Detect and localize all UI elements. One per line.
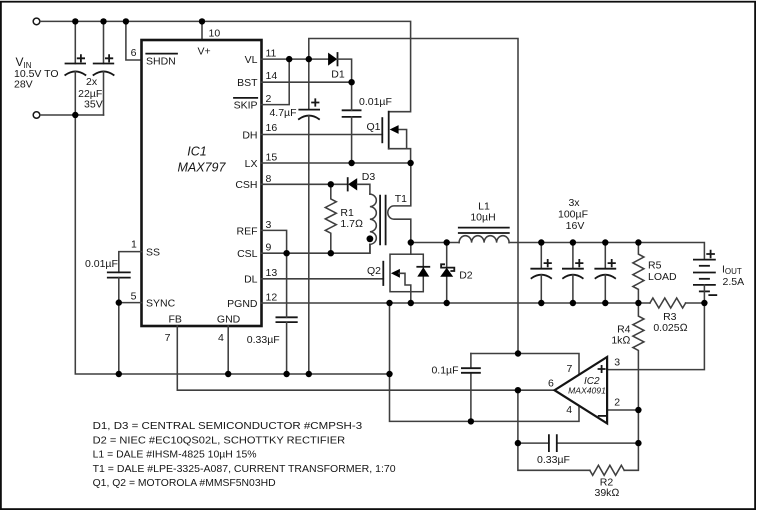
svg-text:10µH: 10µH: [470, 212, 495, 224]
junction dot (389.5,374): [386, 371, 392, 377]
transformer T1 core: [380, 196, 386, 245]
wire LX node to L1 and output rail: [411, 242, 459, 244]
svg-text:28V: 28V: [14, 79, 33, 91]
svg-text:LOAD: LOAD: [648, 271, 677, 283]
svg-text:VL: VL: [245, 54, 258, 66]
junction dot (605.3,242.5): [602, 239, 608, 245]
svg-text:0.1µF: 0.1µF: [431, 365, 458, 377]
wire SKIP pin 2: [262, 59, 290, 105]
wire pin2 node down to R2: [624, 410, 638, 470]
wire DH pin 16 to Q1 gate: [262, 134, 383, 136]
junction dot (638.4,303): [635, 300, 641, 306]
junction dot (638.4,443.1): [635, 440, 641, 446]
svg-text:D1, D3 = CENTRAL SEMICONDUCTOR: D1, D3 = CENTRAL SEMICONDUCTOR #CMPSH-3: [93, 420, 363, 432]
junction dot (572.9,242.5): [570, 239, 576, 245]
svg-text:0.01µF: 0.01µF: [359, 96, 392, 108]
capacitor 0.01uF bootstrap: [343, 110, 361, 117]
junction dots rectified output node: [408, 239, 414, 245]
diode D1: [328, 53, 337, 66]
capacitor 0.33uF REF: [276, 317, 296, 322]
svg-text:3: 3: [614, 357, 620, 369]
capacitor C-in1 22uF: [74, 21, 76, 63]
wire FB pin 7 to IC2 output: [177, 326, 554, 390]
junction dot (605.3,303): [602, 300, 608, 306]
junction dot (330.8,253.2): [328, 250, 334, 256]
svg-text:1: 1: [131, 239, 137, 251]
junction dot (202,21.4): [199, 18, 205, 24]
diode D2 schottky: [446, 243, 448, 304]
svg-text:8: 8: [266, 173, 272, 185]
svg-text:DL: DL: [244, 274, 258, 286]
capacitor Cout3 100uF: [604, 243, 606, 269]
svg-text:GND: GND: [217, 314, 241, 326]
junction dot (410.6,163): [407, 160, 413, 166]
junction dot BST: [348, 79, 354, 85]
svg-text:CSH: CSH: [235, 179, 257, 191]
svg-text:3x: 3x: [568, 197, 580, 209]
svg-text:T1: T1: [395, 193, 407, 205]
junction dot (308.8,374): [306, 371, 312, 377]
junction dot (446.7,242.5): [444, 239, 450, 245]
svg-text:0.025Ω: 0.025Ω: [653, 322, 687, 334]
transistor Q2 body diode: [417, 267, 429, 276]
junction dots LX: [348, 160, 354, 166]
svg-text:Q1: Q1: [366, 121, 380, 133]
svg-text:L1 = DALE #IHSM-4825 10µH 15%: L1 = DALE #IHSM-4825 10µH 15%: [93, 449, 257, 461]
junction dots VL node: [286, 56, 292, 62]
svg-text:D1: D1: [331, 69, 345, 81]
svg-text:1kΩ: 1kΩ: [611, 335, 630, 347]
junction dot pin2 node: [635, 407, 641, 413]
svg-text:10: 10: [209, 28, 221, 40]
svg-text:1.7Ω: 1.7Ω: [340, 218, 363, 230]
svg-text:4: 4: [218, 332, 224, 344]
svg-text:9: 9: [266, 242, 272, 254]
svg-text:DH: DH: [242, 130, 257, 142]
battery IOUT: [694, 259, 715, 261]
junction dot VIN-: [72, 112, 78, 118]
wire CSL pin 9: [262, 244, 371, 253]
junction dot (125.9,21.4): [123, 18, 129, 24]
svg-text:39kΩ: 39kΩ: [595, 487, 620, 499]
wire VIN- bottom: [40, 114, 103, 116]
junction dot (446.7,303): [444, 300, 450, 306]
capacitor C-in2 22uF: [103, 21, 105, 63]
svg-text:MAX4091: MAX4091: [568, 386, 606, 396]
wire VL up and over to IC2 supply: [309, 39, 518, 354]
wire VL pin 11: [262, 58, 329, 60]
transformer T1 secondary: [388, 163, 411, 243]
svg-text:D2 = NIEC #EC10QS02L, SCHOTTKY: D2 = NIEC #EC10QS02L, SCHOTTKY RECTIFIER: [93, 434, 346, 446]
junction dot (103.5,21.4): [100, 18, 106, 24]
svg-text:2: 2: [266, 93, 272, 105]
svg-text:13: 13: [266, 267, 278, 279]
svg-text:6: 6: [548, 377, 554, 389]
resistor R5 LOAD: [633, 243, 644, 304]
wire top V+ rail to Q1 drain: [40, 21, 410, 111]
junction dot (308.8,59.1): [306, 56, 312, 62]
resistor R1 1.7ohm: [325, 184, 336, 253]
wire ground tie PGND to analog gnd: [390, 303, 580, 421]
svg-text:CSL: CSL: [237, 248, 258, 260]
capacitor 0.1uF IC2 bypass: [470, 354, 472, 422]
junction dot (638.4,242.5): [635, 239, 641, 245]
svg-text:FB: FB: [168, 314, 181, 326]
op-amp IC2 MAX4091: [555, 357, 608, 423]
capacitor 0.33uF feedback: [518, 442, 639, 444]
wire SYNC pin 5: [119, 302, 142, 304]
resistor R3 0.025ohm: [650, 298, 686, 308]
svg-text:R5: R5: [648, 259, 662, 271]
junction dot (228.2,374): [225, 371, 231, 377]
junction dot (704.4,303): [701, 300, 707, 306]
svg-text:4: 4: [566, 404, 572, 416]
capacitor Cout2 100uF: [572, 243, 574, 269]
junction dots 0.33uF feedback: [515, 440, 521, 446]
wire REF pin 3: [262, 230, 287, 253]
junction dot (572.9,303): [570, 300, 576, 306]
junction dots CSL: [283, 250, 289, 256]
transformer T1 primary: [370, 194, 376, 244]
svg-text:2: 2: [614, 396, 620, 408]
svg-text:SHDN: SHDN: [146, 55, 176, 67]
svg-text:SYNC: SYNC: [146, 298, 176, 310]
wire PGND pin 12 rail: [262, 302, 650, 304]
inductor L1 10uH: [459, 236, 509, 243]
svg-text:LX: LX: [245, 158, 258, 170]
wire DL pin 13 to Q2 gate: [262, 278, 384, 280]
junction dot (286.6,374): [283, 371, 289, 377]
transistor Q1: [381, 118, 383, 142]
svg-text:14: 14: [266, 70, 278, 82]
svg-text:Q2: Q2: [367, 265, 381, 277]
transistor Q2 box: [410, 243, 412, 255]
svg-text:SKIP: SKIP: [234, 100, 258, 112]
wire BST pin 14: [262, 81, 352, 83]
svg-text:0.01µF: 0.01µF: [85, 258, 118, 270]
svg-text:REF: REF: [237, 225, 258, 237]
svg-text:6: 6: [131, 47, 137, 59]
junction dot CSH: [328, 181, 334, 187]
wire IC2 pin3 to R3 right: [607, 303, 704, 370]
capacitor 0.01uF SS: [108, 272, 130, 277]
junction dot (541.3,303): [538, 300, 544, 306]
svg-text:Q1, Q2 = MOTOROLA #MMSF5N03HD: Q1, Q2 = MOTOROLA #MMSF5N03HD: [93, 477, 276, 489]
wire CSH pin 8: [262, 183, 348, 185]
svg-text:16: 16: [266, 122, 278, 134]
wire V+ pin 10: [201, 21, 203, 40]
svg-text:PGND: PGND: [227, 298, 258, 310]
svg-text:V+: V+: [198, 46, 211, 58]
junction dot SYNC: [116, 299, 122, 305]
capacitor Cout1 100uF: [540, 243, 542, 269]
svg-text:3: 3: [266, 219, 272, 231]
wire output rail: [509, 243, 704, 260]
junction dot (410.8,303): [408, 300, 414, 306]
svg-text:2x: 2x: [86, 76, 98, 88]
wire VIN- down to ground rail and bottom ground rail: [75, 115, 389, 374]
svg-text:SS: SS: [146, 247, 160, 259]
resistor R4 1k: [633, 303, 644, 410]
wire GND pin 4: [227, 326, 229, 374]
svg-text:100µF: 100µF: [558, 209, 588, 221]
wire SS pin 1: [119, 252, 142, 273]
svg-text:2.5A: 2.5A: [723, 276, 745, 288]
svg-text:5: 5: [131, 291, 137, 303]
svg-text:16V: 16V: [566, 220, 585, 232]
wire SHDN from top rail: [126, 21, 142, 60]
junction dots PGND rail: [386, 300, 392, 306]
svg-text:BST: BST: [237, 77, 258, 89]
diode D3: [348, 178, 357, 190]
junction dots bottom ground rail: [116, 371, 122, 377]
terminal VIN-: [33, 112, 40, 119]
svg-text:12: 12: [266, 292, 278, 304]
transformer T1 phase dot: [367, 235, 374, 242]
junction dot FB/output: [515, 387, 521, 393]
svg-text:11: 11: [266, 48, 277, 60]
capacitor 4.7uF: [308, 59, 310, 110]
wire LX pin 15: [262, 162, 411, 164]
svg-text:MAX797: MAX797: [178, 161, 227, 175]
svg-text:7: 7: [567, 363, 573, 375]
wire IC2 pin2: [607, 409, 638, 411]
svg-text:0.33µF: 0.33µF: [537, 454, 570, 466]
resistor R2 39k: [590, 465, 624, 475]
wire IC2 pin7 supply loop: [471, 354, 579, 375]
svg-text:4.7µF: 4.7µF: [269, 107, 296, 119]
svg-text:T1 = DALE #LPE-3325-A087, CURR: T1 = DALE #LPE-3325-A087, CURRENT TRANSF…: [93, 463, 396, 475]
svg-text:7: 7: [165, 332, 171, 344]
svg-text:0.33µF: 0.33µF: [247, 334, 280, 346]
junction dots top rail: [72, 18, 78, 24]
junction dot 0.1uF gnd: [468, 418, 474, 424]
svg-text:D3: D3: [362, 171, 376, 183]
terminal VIN+: [33, 18, 40, 25]
svg-text:IC1: IC1: [187, 145, 206, 159]
junction dot IC2 supply: [515, 350, 521, 356]
svg-text:15: 15: [266, 152, 278, 164]
IC U1 MAX797 box: [142, 40, 262, 326]
svg-text:D2: D2: [459, 270, 473, 282]
junction dots output rail: [538, 239, 544, 245]
svg-text:35V: 35V: [84, 99, 103, 111]
